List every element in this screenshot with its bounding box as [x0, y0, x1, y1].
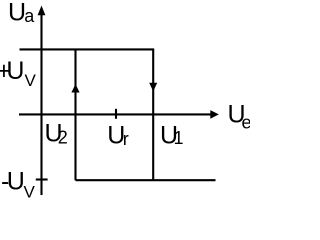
-Uv level line	[76, 179, 216, 181]
up arrowhead on U2 vertical	[71, 84, 79, 93]
label U1	[160, 121, 184, 149]
svg-text:2: 2	[58, 128, 68, 148]
Ur tick on x-axis	[115, 109, 117, 119]
hysteresis left vertical at U2	[74, 49, 76, 181]
svg-text:U: U	[6, 57, 24, 85]
svg-text:V: V	[24, 183, 36, 200]
hysteresis right vertical at U1	[152, 49, 154, 181]
down arrowhead on U1 vertical	[149, 83, 157, 92]
x-axis Ue	[19, 110, 219, 119]
label +Uv	[0, 57, 37, 90]
+Uv level line	[20, 48, 155, 50]
-Uv tick on y-axis	[36, 178, 48, 180]
svg-text:V: V	[25, 71, 37, 90]
label Ur	[107, 121, 129, 149]
svg-text:r: r	[123, 129, 129, 149]
label U2	[45, 119, 68, 147]
svg-text:U: U	[7, 168, 25, 196]
svg-text:1: 1	[174, 128, 184, 148]
svg-text:a: a	[24, 6, 35, 26]
label Ua	[8, 0, 35, 27]
label -Uv	[1, 168, 36, 202]
svg-text:e: e	[242, 113, 251, 133]
label Ue	[228, 101, 252, 133]
y-axis Ua	[38, 6, 46, 196]
